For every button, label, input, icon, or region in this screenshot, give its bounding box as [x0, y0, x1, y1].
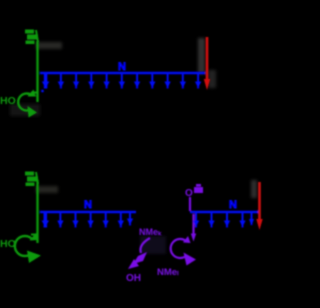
top molecule: blue fatty chain horizontal bond [40, 72, 205, 75]
bottom-left chain tick 6 [118, 212, 124, 228]
top molecule: red oxygen bond [204, 37, 210, 90]
bottom-right chain tick 3 [224, 212, 230, 228]
bottom molecule: purple bond from label to chain [189, 197, 191, 211]
svg-text:HO: HO [0, 238, 16, 250]
bottom molecule: purple left curve with arrow [128, 238, 150, 269]
top molecule: green backbone vertical bond [36, 41, 38, 102]
bottom-right chain tick 2 [208, 212, 214, 228]
top chain tick 2 [58, 73, 64, 89]
top chain tick 8 [149, 73, 155, 89]
top chain tick 10 [180, 73, 186, 89]
bottom-left chain tick 4 [87, 212, 93, 228]
svg-text:OH: OH [126, 273, 141, 284]
top chain tick 1 [42, 73, 50, 89]
bottom-left chain tick 1 [42, 212, 50, 228]
svg-text:N: N [229, 199, 237, 211]
bottom molecule: purple bond below chain [191, 214, 196, 242]
bottom-right chain tick 4 [239, 212, 245, 228]
bottom molecule: left blue chain horizontal bond [40, 211, 136, 214]
bottom-left chain tick 3 [72, 212, 78, 228]
bottom-right chain terminal tick [249, 212, 254, 226]
bottom molecule: right blue chain horizontal bond [190, 211, 258, 214]
top chain tick 7 [134, 73, 140, 89]
svg-text:N: N [118, 61, 126, 73]
bottom molecule: purple phosphate label top [185, 184, 203, 199]
top chain tick 9 [164, 73, 170, 89]
bottom molecule: green head label [25, 172, 38, 187]
top chain tick 4 [88, 73, 94, 89]
top chain tick 3 [73, 73, 79, 89]
top chain tick 6 [119, 73, 125, 89]
top chain tick 5 [103, 73, 109, 89]
bottom molecule: green ring arc with arrow tips [15, 233, 41, 263]
bottom-left chain tick 5 [103, 212, 109, 228]
bottom-right chain tick 1 [193, 212, 199, 228]
svg-text:HO: HO [0, 95, 16, 107]
svg-text:NMeₗ: NMeₗ [157, 267, 179, 278]
top chain tick 1 tip dot [41, 90, 44, 93]
bottom molecule: purple ring arc right [171, 236, 196, 266]
top molecule: green ring arc with arrow tips [18, 90, 38, 118]
bottom molecule: green backbone vertical bond [36, 180, 38, 243]
svg-text:NMeₖ: NMeₖ [139, 227, 162, 237]
svg-text:N: N [84, 199, 92, 211]
bottom molecule: red oxygen bond [256, 182, 262, 230]
top molecule: green head label [25, 30, 38, 45]
bottom-left chain tick 2 [57, 212, 63, 228]
bottom-left chain terminal tick [127, 212, 133, 226]
top chain tick 11 [195, 73, 201, 89]
